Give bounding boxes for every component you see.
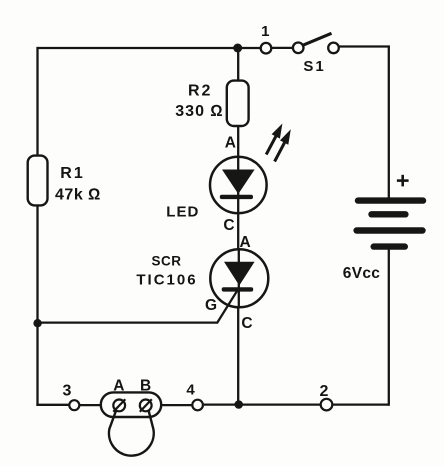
switch S1 pole contact — [293, 43, 304, 54]
wire inside SCR body — [238, 249, 240, 307]
LED light arrow 2 — [275, 129, 291, 161]
svg-text:S1: S1 — [303, 58, 325, 75]
wire between switch contacts — [271, 47, 293, 49]
wire left vertical branch — [36, 47, 38, 406]
sensor probe loop — [109, 409, 154, 455]
LED cathode bar — [220, 195, 253, 199]
switch S1 arm — [303, 33, 332, 45]
junction node gate tap on left branch — [33, 319, 41, 327]
junction node top (R2 tap) — [233, 44, 242, 53]
svg-text:A: A — [239, 234, 250, 251]
resistor R1 — [28, 156, 48, 206]
svg-text:SCR: SCR — [151, 253, 181, 268]
sensor screw A — [113, 400, 125, 412]
svg-text:C: C — [223, 217, 234, 234]
svg-text:6Vcc: 6Vcc — [343, 265, 380, 282]
svg-text:330 Ω: 330 Ω — [175, 103, 223, 120]
resistor R2 — [227, 81, 249, 126]
battery plate 1 long (positive) — [358, 197, 423, 203]
svg-text:TIC106: TIC106 — [136, 272, 197, 289]
junction node bottom (SCR cathode to bottom wire) — [234, 400, 243, 409]
battery plate 2 short — [372, 211, 406, 217]
svg-text:A: A — [113, 377, 124, 394]
wire right vertical upper (top corner to battery plus) — [388, 46, 390, 202]
terminal 2 circle — [321, 399, 333, 411]
sensor screw B — [140, 400, 152, 412]
wire screw B to terminal 4 — [151, 404, 193, 406]
SCR anode triangle — [224, 262, 255, 286]
svg-text:1: 1 — [261, 23, 269, 40]
wire terminal 2 to bottom-right corner — [332, 403, 389, 405]
terminal 4 circle — [192, 400, 203, 411]
wire terminal 3 to screw A — [79, 404, 114, 406]
wire inside LED body — [237, 157, 239, 214]
svg-text:B: B — [140, 377, 151, 394]
LED light arrow 1 — [266, 124, 282, 155]
svg-text:A: A — [225, 135, 236, 152]
svg-text:LED: LED — [166, 204, 199, 221]
battery plate 4 short (negative) — [374, 243, 405, 249]
svg-text:4: 4 — [186, 381, 195, 398]
SCR circle body — [210, 249, 268, 307]
battery plate 3 long — [357, 227, 423, 233]
svg-text:G: G — [205, 297, 217, 314]
terminal 1 circle — [261, 43, 272, 54]
svg-text:3: 3 — [63, 382, 72, 399]
sensor screw B slash — [140, 399, 152, 412]
wire center vertical (junction through R2, LED, SCR to bottom) — [237, 48, 239, 405]
svg-text:C: C — [241, 315, 252, 332]
sensor terminal block capsule — [101, 392, 161, 417]
wire top horizontal (corner to terminal 1) — [38, 47, 262, 49]
LED anode triangle — [222, 170, 255, 195]
switch S1 throw contact — [328, 43, 339, 54]
svg-text:2: 2 — [319, 383, 328, 400]
svg-text:47k Ω: 47k Ω — [55, 187, 101, 204]
svg-text:R1: R1 — [60, 165, 84, 182]
LED circle body — [210, 157, 267, 214]
wire right vertical lower (battery minus to bottom corner) — [388, 246, 390, 406]
SCR cathode bar — [222, 287, 254, 291]
svg-text:R2: R2 — [188, 83, 212, 100]
battery positive label + — [397, 175, 409, 187]
wire bottom left (corner to terminal 3) — [36, 404, 69, 406]
wire terminal 4 to terminal 2 — [203, 403, 322, 405]
wire top right (switch to corner) — [339, 45, 390, 47]
terminal 3 circle — [69, 400, 79, 410]
sensor screw A slash — [113, 399, 125, 412]
wire gate (from left-branch junction to SCR gate) — [38, 288, 239, 323]
